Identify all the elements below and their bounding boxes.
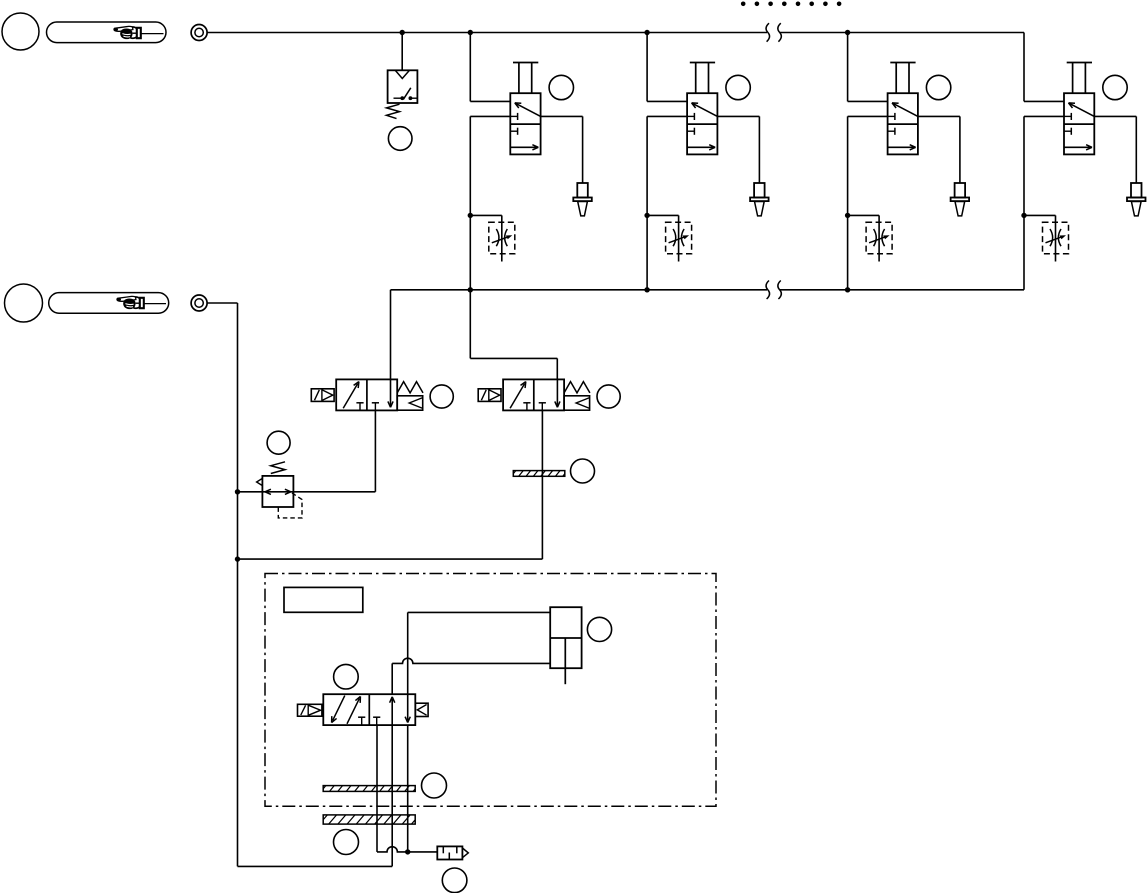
wire: regulator line [238, 491, 376, 493]
manual supply button 2 (pill) [49, 293, 169, 314]
air supply port 1 [191, 25, 207, 41]
wire: supply feed (bottom) [238, 865, 393, 867]
hand pointer icon 2 [116, 296, 166, 308]
label circle (silencer S1) [571, 459, 595, 483]
silencer S3 (hatched) [319, 811, 432, 825]
wire: valve V2 to nozzle [717, 116, 759, 183]
air nozzle N2 [750, 183, 769, 216]
wire: outlet branch line V3 [848, 116, 888, 289]
junction dot (speed controller branch 3) [845, 213, 850, 218]
solenoid pilot valve SV2 [503, 379, 564, 410]
pilot exhaust of MV1 [415, 703, 428, 716]
junction dot (speed controller branch 4) [1021, 213, 1026, 218]
wire: valve V3 to nozzle [918, 116, 960, 183]
label circle (MV1) [334, 664, 359, 689]
actuator cylinder CYL1 [550, 607, 581, 684]
push pin actuator of valve V1 [513, 63, 538, 94]
break mark on lower bus [766, 281, 781, 300]
label circle (cylinder) [587, 617, 611, 641]
wire: valve V4 to nozzle [1094, 116, 1136, 183]
wire: main supply bus (top) [207, 32, 1024, 34]
wire: supply line 2 (left main) [207, 303, 237, 866]
wire: SV2 outlet down [238, 410, 543, 559]
label circle (SV2) [597, 385, 620, 408]
label circle (pressure switch) [388, 127, 412, 151]
wire: port B line to cylinder top [408, 612, 551, 694]
return spring of SV2 [564, 382, 590, 393]
air supply port 2 [191, 295, 207, 311]
speed controller FC1 [489, 222, 515, 253]
wire: branch to speed controller 3 [848, 215, 880, 261]
push pin actuator of valve V2 [690, 63, 715, 94]
wire: port A line to cylinder bottom (with crossover hop) [392, 658, 550, 694]
air nozzle N1 [573, 183, 592, 216]
wire: bottom link with crossover hop [377, 847, 437, 852]
junction dot (exhaust tee) [405, 849, 410, 854]
mechanical 3-port valve V3 [888, 93, 918, 154]
label circle (filter) [442, 868, 467, 893]
wire: valve V1 to nozzle [541, 116, 583, 183]
wire: supply drop to valve V2 [647, 33, 687, 102]
junction dots on top bus [400, 30, 851, 35]
regulator adjusting spring [271, 462, 285, 474]
junction dot (speed controller branch 1) [468, 213, 473, 218]
pressure switch spring [387, 104, 400, 118]
mechanical 3-port valve V1 [510, 93, 540, 154]
junction dot (SV2 drain tee) [235, 556, 240, 561]
wire: manifold bus (lower) [391, 289, 1025, 291]
label circle (valve V3) [926, 75, 950, 99]
break mark on top bus [766, 23, 781, 42]
solenoid coil of SV2 [478, 389, 501, 402]
pressure regulator RG1 [257, 476, 294, 507]
wire: MV1 exhaust down [407, 725, 409, 852]
vacuum unit enclosure (dash-dot box) [265, 574, 716, 807]
speed controller FC4 [1043, 222, 1069, 253]
wire: supply riser to MV1 [391, 725, 393, 866]
wire: drop to pressure switch [401, 33, 403, 71]
manual supply button 1 (circle) [2, 13, 39, 50]
manual supply button 1 (pill) [47, 22, 167, 43]
wire: branch to pilot valve SV2 [470, 290, 557, 380]
solenoid pilot valve SV1 [336, 379, 397, 410]
speed controller FC3 [866, 222, 892, 253]
label circle (silencer S2) [422, 773, 447, 798]
wire: supply drop to valve V1 [470, 33, 510, 102]
wire: outlet branch line V1 [470, 116, 510, 289]
wire: outlet branch line V2 [647, 116, 687, 289]
return spring of SV1 [397, 382, 423, 393]
wire: outlet branch line V4 [1024, 116, 1064, 289]
silencer S1 (hatched) [510, 467, 578, 478]
junction dot (regulator tee) [235, 489, 240, 494]
push pin actuator of valve V3 [890, 63, 915, 94]
label circle (SV1) [430, 385, 453, 408]
exhaust port of SV2 [564, 396, 590, 410]
wire: branch to speed controller 4 [1024, 215, 1056, 261]
wire: branch to speed controller 2 [647, 215, 679, 261]
pressure switch PS1 [388, 70, 418, 103]
solenoid coil of SV1 [311, 389, 334, 402]
wire: lower bus to pilot valve SV1 [390, 290, 392, 380]
label circle (valve V2) [726, 75, 750, 99]
exhaust filter F1 [437, 846, 468, 859]
mechanical 3-port valve V4 [1064, 93, 1094, 154]
air nozzle N3 [951, 183, 970, 216]
wire: MV1 port line down [376, 725, 378, 852]
wire: supply drop to valve V4 [1024, 33, 1064, 102]
wire: SV1 outlet down [374, 410, 376, 491]
regulator pilot line (dashed) [278, 493, 302, 518]
mechanical 3-port valve V2 [687, 93, 717, 154]
junction dot (speed controller branch 2) [644, 213, 649, 218]
wire: supply drop to valve V3 [848, 33, 888, 102]
main 4-port valve MV1 [323, 694, 415, 725]
label circle (silencer S3) [334, 830, 359, 855]
manual supply button 2 (circle) [5, 284, 43, 322]
label circle (regulator) [267, 431, 290, 454]
wire: branch to speed controller 1 [470, 215, 502, 261]
solenoid coil of MV1 [298, 704, 322, 716]
air nozzle N4 [1127, 183, 1146, 216]
junction dots on lower bus [468, 287, 851, 292]
exhaust port of SV1 [397, 396, 423, 410]
hand pointer icon 1 [113, 26, 163, 38]
label circle (valve V1) [549, 75, 573, 99]
name plate rectangle [284, 587, 363, 612]
dotted continuation label [741, 2, 841, 7]
push pin actuator of valve V4 [1067, 63, 1092, 94]
silencer S2 (hatched) [320, 782, 429, 793]
label circle (valve V4) [1103, 75, 1127, 99]
speed controller FC2 [666, 222, 692, 253]
